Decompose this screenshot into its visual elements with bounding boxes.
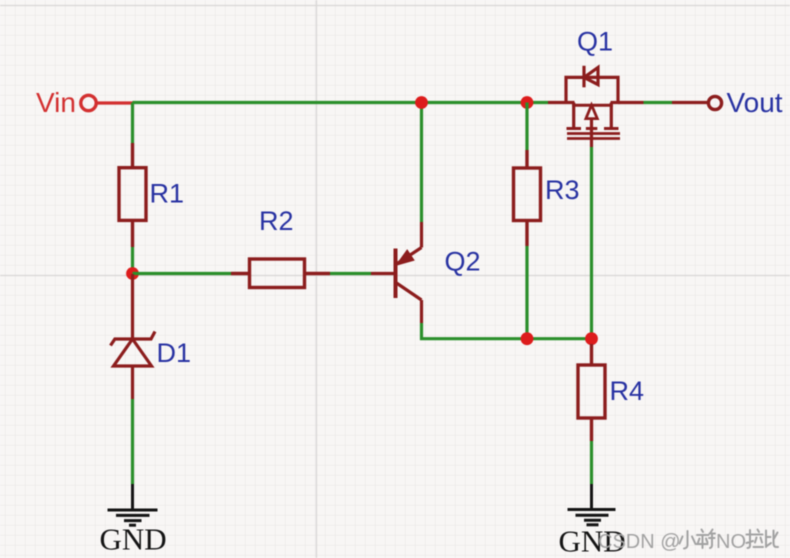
wire node A to R2 [133, 272, 232, 275]
junction bottom rail / R3 [521, 332, 534, 345]
wire D1 to ground [131, 399, 134, 484]
ground GND right [568, 484, 616, 525]
transistor Q2 (PNP) [371, 222, 422, 323]
wire Vin lead [96, 101, 133, 104]
wire Vout lead [672, 101, 709, 104]
junction bottom rail / Q1 gate / R4 [585, 332, 598, 345]
wire top rail Vin to Q1 [133, 101, 549, 104]
svg-text:D1: D1 [157, 338, 192, 368]
watermark CSDN @xiaoxin NO labi [598, 530, 778, 554]
ground GND left [108, 484, 158, 525]
svg-text:R1: R1 [150, 179, 185, 209]
la [747, 530, 764, 549]
junction node A (R1/R2/D1) [126, 267, 139, 280]
svg-text:Vout: Vout [727, 87, 783, 118]
wire left rail drop to R1 [131, 103, 134, 144]
wire Q2 collector to bottom rail [422, 323, 593, 339]
wire Q1 drain to Vout [644, 101, 673, 104]
xin [697, 530, 716, 549]
junction top rail / Q2 emitter [415, 96, 428, 109]
resistor R3 [514, 150, 541, 246]
diode D1 (zener) [111, 274, 156, 399]
resistor R1 [119, 143, 146, 247]
svg-text:CSDN @: CSDN @ [598, 531, 681, 553]
resistor R4 [578, 344, 605, 441]
svg-text:Q1: Q1 [577, 27, 613, 57]
bi [766, 531, 778, 548]
terminal Vin [81, 95, 96, 110]
resistor R2 [231, 259, 330, 288]
wire R2 to Q2 base [330, 272, 371, 275]
junction top rail / R3 [521, 96, 534, 109]
svg-text:GND: GND [100, 522, 167, 557]
wire Q2 emitter to top rail [420, 103, 423, 223]
wire R3 to bottom rail [525, 246, 528, 339]
svg-text:R2: R2 [259, 206, 294, 236]
svg-text:R3: R3 [545, 175, 580, 205]
wire Q1 gate to bottom rail [590, 147, 593, 339]
wire R4 to ground [590, 441, 593, 484]
svg-text:NO: NO [716, 531, 746, 553]
terminal Vout [708, 96, 721, 109]
svg-text:Vin: Vin [36, 87, 76, 118]
wire top rail to R3 [525, 103, 528, 151]
svg-text:R4: R4 [610, 376, 645, 406]
wire R1 to node A [131, 247, 134, 270]
transistor Q1 (P-MOSFET with body diode) [548, 66, 644, 147]
xiao [680, 531, 696, 549]
svg-text:Q2: Q2 [445, 247, 481, 277]
